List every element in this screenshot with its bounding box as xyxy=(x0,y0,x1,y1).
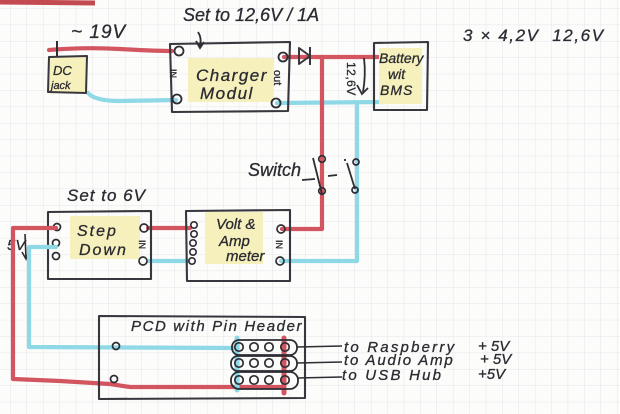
wire cyan from DC jack to charger input xyxy=(88,93,176,101)
wire cyan step-down output to PCB xyxy=(29,247,236,348)
pin header row 1 xyxy=(232,340,297,355)
svg-text:DC: DC xyxy=(53,63,72,78)
pin header row 2 xyxy=(231,356,297,371)
wire red step-down output to PCB xyxy=(13,228,284,387)
wire red pin header column xyxy=(282,338,287,393)
charger module U1 xyxy=(168,32,290,112)
svg-text:12,6V: 12,6V xyxy=(344,62,358,96)
svg-text:Battery: Battery xyxy=(379,50,424,66)
label Set to 6V xyxy=(67,186,147,205)
svg-text:BMS: BMS xyxy=(380,82,413,98)
label ~19V input xyxy=(71,22,128,43)
svg-text:PCD with Pin Header: PCD with Pin Header xyxy=(131,318,303,335)
wire cyan pin header column xyxy=(235,338,240,390)
svg-text:wit: wit xyxy=(388,66,406,82)
leader line to Audio Amp xyxy=(297,362,342,363)
PCB with pin header xyxy=(99,316,305,399)
svg-text:IN: IN xyxy=(168,69,178,78)
svg-text:Switch: Switch xyxy=(248,160,301,180)
wire red charger output to battery through diode xyxy=(284,55,384,59)
svg-text:Set to 6V: Set to 6V xyxy=(67,186,147,205)
label 5V output xyxy=(7,234,29,259)
svg-text:~ 19V: ~ 19V xyxy=(71,22,128,43)
label Set to 12,6V / 1A xyxy=(183,5,319,25)
svg-text:out: out xyxy=(271,70,283,85)
svg-text:3 × 4,2V 12,6V: 3 × 4,2V 12,6V xyxy=(463,26,605,45)
label to Raspberry +5V xyxy=(344,338,511,356)
svg-text:Step: Step xyxy=(77,223,118,240)
svg-text:to USB Hub: to USB Hub xyxy=(342,367,443,384)
svg-text:Charger: Charger xyxy=(196,66,268,85)
step-down converter U2 xyxy=(48,211,151,279)
pin header row 3 xyxy=(231,372,298,389)
battery with BMS BT1 xyxy=(374,42,428,110)
svg-text:Volt &: Volt & xyxy=(216,216,255,233)
wire cyan battery junction down to switch and meter xyxy=(281,103,357,261)
DC jack J1 xyxy=(48,41,87,93)
svg-text:IN: IN xyxy=(137,240,147,249)
leader line to Raspberry xyxy=(297,346,342,347)
switch S1 xyxy=(248,156,359,195)
wire red battery junction down to switch and meter xyxy=(282,57,322,229)
wire cyan meter to step-down xyxy=(149,259,188,263)
svg-text:Down: Down xyxy=(79,242,128,259)
leader line to USB Hub xyxy=(297,377,342,378)
diode D1 xyxy=(299,47,310,65)
svg-text:+5V: +5V xyxy=(478,366,507,383)
label to USB Hub +5V xyxy=(342,366,507,384)
wire red meter to step-down xyxy=(148,226,190,230)
svg-text:jack: jack xyxy=(49,80,71,92)
arrow 12,6V measurement xyxy=(344,58,368,96)
wire red from DC jack to charger input xyxy=(49,48,172,51)
svg-text:5V: 5V xyxy=(7,237,27,254)
svg-text:IN: IN xyxy=(274,240,284,249)
volt and amp meter M1 xyxy=(186,210,290,281)
wire cyan charger output to battery xyxy=(277,102,385,103)
svg-text:Modul: Modul xyxy=(200,84,254,103)
label 3x4,2V 12,6V xyxy=(463,26,605,45)
svg-text:meter: meter xyxy=(226,248,265,265)
label to Audio Amp +5V xyxy=(344,351,513,369)
svg-text:Set to 12,6V / 1A: Set to 12,6V / 1A xyxy=(183,5,319,25)
